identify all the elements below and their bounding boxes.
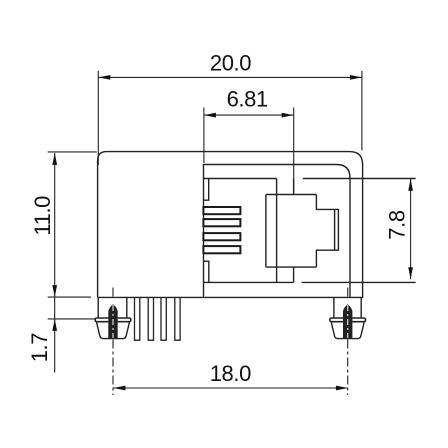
svg-text:20.0: 20.0: [210, 51, 251, 76]
svg-text:1.7: 1.7: [27, 333, 52, 363]
svg-text:7.8: 7.8: [385, 210, 410, 240]
svg-text:6.81: 6.81: [227, 86, 268, 111]
svg-text:11.0: 11.0: [30, 196, 55, 236]
svg-text:18.0: 18.0: [210, 361, 251, 386]
